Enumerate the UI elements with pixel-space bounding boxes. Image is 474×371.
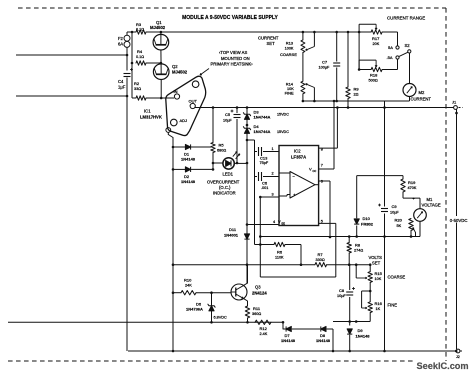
svg-text:R19: R19 (408, 180, 416, 185)
svg-text:1N4148: 1N4148 (181, 179, 196, 184)
svg-text:5A: 5A (388, 45, 393, 50)
svg-text:10µF: 10µF (223, 119, 232, 123)
svg-text:.001: .001 (261, 186, 268, 190)
svg-text:LM317HVK: LM317HVK (140, 115, 162, 120)
svg-text:C8: C8 (339, 288, 345, 293)
svg-text:1N4744A: 1N4744A (254, 115, 271, 120)
svg-text:4: 4 (273, 220, 275, 224)
svg-text:2N4124: 2N4124 (252, 291, 267, 296)
svg-text:CC: CC (313, 169, 317, 173)
svg-text:680Ω: 680Ω (217, 148, 226, 152)
svg-text:6A: 6A (118, 42, 123, 47)
svg-text:R11: R11 (253, 306, 261, 311)
svg-text:0.1Ω: 0.1Ω (136, 55, 144, 59)
svg-text:COARSE: COARSE (388, 275, 406, 280)
svg-text:7: 7 (321, 164, 323, 168)
svg-text:C9: C9 (392, 204, 398, 209)
svg-text:330Ω: 330Ω (316, 258, 325, 262)
svg-text:5K: 5K (397, 224, 402, 228)
svg-text:SeekIC.com: SeekIC.com (417, 361, 469, 371)
svg-text:FR802: FR802 (361, 222, 374, 227)
svg-text:75pF: 75pF (260, 161, 269, 165)
svg-text:FINE: FINE (285, 91, 294, 96)
svg-text:1N4148: 1N4148 (281, 338, 296, 343)
svg-text:OUT: OUT (189, 99, 198, 104)
svg-text:FINE: FINE (388, 302, 398, 307)
svg-text:CURRENT: CURRENT (258, 36, 279, 41)
svg-text:C6: C6 (262, 181, 268, 186)
svg-text:COARSE: COARSE (280, 52, 297, 57)
svg-text:R14: R14 (286, 82, 294, 87)
svg-text:110K: 110K (275, 256, 284, 260)
svg-text:1N4001: 1N4001 (224, 233, 239, 238)
svg-text:SET: SET (267, 41, 276, 46)
svg-text:R10: R10 (184, 278, 192, 283)
svg-text:PRIMARY HEATSINK›: PRIMARY HEATSINK› (211, 62, 254, 67)
svg-text:100K: 100K (285, 47, 294, 51)
svg-text:24K: 24K (185, 284, 192, 288)
svg-text:C4: C4 (118, 79, 124, 84)
svg-text:0.1Ω: 0.1Ω (136, 28, 144, 32)
svg-text:+: + (413, 197, 415, 201)
svg-text:R6: R6 (277, 250, 283, 255)
svg-text:M2: M2 (419, 90, 425, 95)
svg-text:R8: R8 (355, 243, 361, 248)
svg-text:10µF: 10µF (390, 211, 399, 215)
svg-text:R2: R2 (134, 81, 140, 86)
svg-text:1µF: 1µF (118, 85, 126, 90)
svg-text:1N4148: 1N4148 (356, 334, 371, 339)
svg-text:OVERCURRENT: OVERCURRENT (207, 180, 240, 185)
svg-text:CURRENT: CURRENT (411, 97, 432, 102)
svg-text:LED1: LED1 (223, 172, 234, 177)
svg-text:500Ω: 500Ω (369, 78, 378, 82)
svg-text:LF357A: LF357A (291, 154, 306, 159)
svg-text:2: 2 (272, 172, 274, 176)
svg-text:EE: EE (282, 222, 286, 226)
svg-text:R16: R16 (375, 301, 383, 306)
svg-text:10µF: 10µF (337, 294, 346, 298)
svg-text:R18: R18 (370, 73, 378, 78)
svg-text:470K: 470K (408, 186, 417, 190)
svg-text:D10: D10 (363, 216, 371, 221)
svg-text:10K: 10K (375, 277, 382, 281)
svg-text:MODULE A 9-50VDC VARIABLE SUPP: MODULE A 9-50VDC VARIABLE SUPPLY (182, 15, 278, 21)
svg-text:S2: S2 (405, 43, 411, 48)
svg-text:MJ4502: MJ4502 (172, 70, 188, 75)
svg-text:SET: SET (372, 260, 381, 265)
svg-text:ADJ: ADJ (180, 118, 188, 123)
svg-text:15VDC: 15VDC (277, 130, 289, 134)
svg-text:2.4K: 2.4K (260, 332, 268, 336)
svg-text:CURRENT RANGE: CURRENT RANGE (387, 16, 425, 21)
svg-text:F2: F2 (118, 36, 124, 41)
svg-text:R13: R13 (286, 41, 294, 46)
svg-text:1: 1 (272, 147, 274, 151)
svg-text:33Ω: 33Ω (134, 87, 141, 91)
svg-text:R20: R20 (395, 218, 403, 223)
svg-text:IN: IN (174, 89, 178, 94)
svg-text:1N4148: 1N4148 (316, 338, 331, 343)
svg-text:R3: R3 (136, 22, 142, 27)
svg-text:M1: M1 (427, 197, 433, 202)
svg-text:C13: C13 (260, 156, 268, 161)
svg-text:R9: R9 (354, 87, 360, 92)
svg-text:1K: 1K (376, 307, 381, 311)
svg-text:3: 3 (272, 192, 274, 196)
svg-text:R15: R15 (375, 271, 383, 276)
svg-text:C5: C5 (225, 112, 231, 117)
svg-text:1N4148: 1N4148 (181, 157, 196, 162)
svg-text:15VDC: 15VDC (277, 113, 289, 117)
svg-text:R5: R5 (219, 143, 225, 148)
svg-text:20K: 20K (373, 42, 380, 46)
svg-text:100µF: 100µF (319, 65, 331, 69)
svg-text:IC1: IC1 (144, 109, 151, 114)
svg-text:MOUNTED ON: MOUNTED ON (221, 56, 250, 61)
svg-text:6.8VDC: 6.8VDC (214, 316, 228, 320)
svg-text:J2: J2 (456, 355, 460, 359)
svg-text:0-50VDC: 0-50VDC (450, 218, 468, 223)
svg-text:(O.C.): (O.C.) (219, 185, 231, 190)
svg-text:R12: R12 (260, 326, 268, 331)
svg-text:VOLTAGE: VOLTAGE (422, 202, 441, 207)
svg-text:Q2: Q2 (172, 64, 178, 69)
svg-text:R7: R7 (318, 252, 324, 257)
svg-text:360Ω: 360Ω (252, 312, 261, 316)
svg-text:D11: D11 (229, 227, 237, 232)
svg-text:Q3: Q3 (255, 285, 261, 290)
svg-text:IC2: IC2 (294, 149, 301, 154)
svg-text:VOLTS: VOLTS (369, 255, 383, 260)
svg-text:‹TOP VIEW AS: ‹TOP VIEW AS (219, 50, 247, 55)
svg-text:1N4744A: 1N4744A (254, 129, 271, 134)
svg-text:INDICATOR: INDICATOR (213, 191, 236, 196)
svg-text:1N4736A: 1N4736A (186, 307, 203, 312)
svg-text:R17: R17 (372, 36, 380, 41)
svg-text:274Ω: 274Ω (354, 249, 363, 253)
svg-text:MJ4502: MJ4502 (150, 25, 166, 30)
svg-text:.5A: .5A (387, 55, 393, 60)
svg-text:2Ω: 2Ω (354, 93, 359, 97)
svg-text:R4: R4 (137, 49, 143, 54)
svg-text:D9: D9 (358, 328, 364, 333)
svg-text:C7: C7 (322, 60, 328, 65)
